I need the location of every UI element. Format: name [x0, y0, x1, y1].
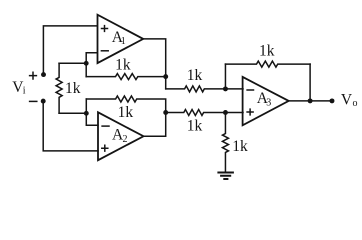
op-amp A1 — [98, 15, 144, 63]
resistor 1k series A2-to-A3 noninverting — [166, 110, 243, 116]
wire A3 output to Vo terminal — [289, 100, 332, 102]
wire gain-resistor top to A1 inverting node — [59, 62, 86, 64]
node A3 output — [308, 98, 313, 103]
wire gain-resistor bottom to A2 inverting node — [59, 112, 86, 114]
value label 1k gain resistor — [65, 80, 81, 97]
svg-text:1k: 1k — [115, 56, 131, 73]
svg-text:o: o — [353, 98, 358, 109]
resistor 1k A1 feedback — [86, 74, 166, 80]
op-amp A1 minus pin mark — [101, 50, 108, 52]
junction Vo terminal — [330, 98, 335, 103]
op-amp A3 designator — [257, 90, 271, 109]
op-amp A1 designator — [112, 29, 126, 47]
wire A3 feedback row down to output node — [309, 64, 311, 101]
node A2 output — [163, 110, 168, 115]
value label 1k series A2-A3 — [187, 117, 203, 134]
node A1 inverting input — [84, 61, 89, 66]
op-amp A3 — [243, 77, 289, 125]
value label 1k A3 feedback — [259, 42, 275, 59]
svg-text:1k: 1k — [232, 138, 248, 155]
svg-text:1k: 1k — [65, 80, 81, 97]
value label 1k A2 feedback — [118, 104, 134, 121]
svg-text:1k: 1k — [259, 42, 275, 59]
node A3 noninverting input — [223, 110, 228, 115]
Vi plus polarity mark — [30, 72, 37, 79]
wire A1 output right and down to series row — [143, 39, 166, 89]
node A1 output — [163, 74, 168, 79]
label Vi input voltage — [12, 79, 26, 96]
resistor 1k A2 feedback — [86, 96, 165, 113]
wire A1 inverting input branch — [86, 53, 97, 77]
op-amp A2 plus pin mark — [102, 145, 108, 151]
resistor 1k series A1-to-A3 inverting — [166, 86, 243, 92]
wire A3 inverting node up to feedback row — [224, 64, 226, 89]
svg-text:2: 2 — [123, 134, 128, 145]
resistor R 1k gain (vertical between inverting nodes) — [56, 63, 62, 113]
svg-text:i: i — [23, 85, 26, 96]
wire Vi+ terminal up and right to A1 noninverting input — [43, 26, 97, 75]
resistor 1k to ground — [222, 113, 228, 173]
op-amp A3 plus pin mark — [247, 109, 253, 115]
svg-text:3: 3 — [266, 98, 271, 109]
op-amp A2 minus pin mark — [102, 125, 109, 127]
wire A2 output right and up to series row — [144, 113, 166, 137]
ground — [217, 173, 234, 180]
Vi minus polarity mark — [30, 100, 37, 102]
op-amp A2 designator — [112, 127, 128, 145]
node A3 inverting input — [223, 86, 228, 91]
node A2 inverting input — [84, 111, 89, 116]
svg-text:V: V — [341, 92, 353, 109]
junction Vi+ terminal — [41, 72, 46, 77]
op-amp A3 minus pin mark — [247, 89, 253, 91]
value label 1k series A1-A3 — [187, 67, 203, 84]
svg-text:1: 1 — [121, 36, 126, 47]
junction Vi- terminal — [41, 99, 46, 104]
value label 1k ground resistor — [232, 138, 248, 155]
wire A2 inverting input branch — [86, 99, 98, 125]
op-amp A2 — [98, 112, 144, 160]
resistor 1k A3 feedback — [225, 61, 310, 67]
label Vo output voltage — [341, 92, 358, 109]
svg-text:1k: 1k — [187, 117, 203, 134]
wire Vi- terminal down and right to A2 noninverting input — [43, 101, 98, 151]
svg-text:1k: 1k — [118, 104, 134, 121]
op-amp A1 plus pin mark — [102, 26, 108, 32]
value label 1k A1 feedback — [115, 56, 131, 73]
svg-text:1k: 1k — [187, 67, 203, 84]
